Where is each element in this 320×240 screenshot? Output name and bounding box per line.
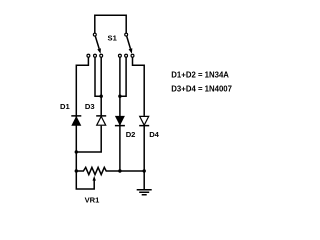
svg-text:D1+D2 = 1N34A: D1+D2 = 1N34A: [171, 71, 229, 80]
svg-text:VR1: VR1: [85, 196, 101, 205]
svg-text:D4: D4: [149, 130, 159, 139]
svg-text:D3: D3: [85, 102, 95, 111]
svg-text:D2: D2: [126, 130, 136, 139]
svg-text:D1: D1: [60, 102, 70, 111]
svg-text:S1: S1: [108, 34, 118, 43]
svg-text:D3+D4 = 1N4007: D3+D4 = 1N4007: [171, 85, 232, 94]
